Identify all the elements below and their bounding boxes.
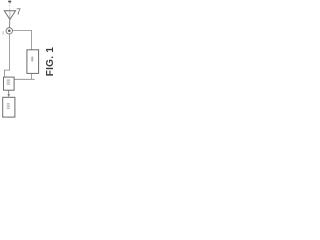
svg-text:7: 7: [16, 7, 21, 17]
svg-text:FIG. 1: FIG. 1: [45, 47, 54, 77]
